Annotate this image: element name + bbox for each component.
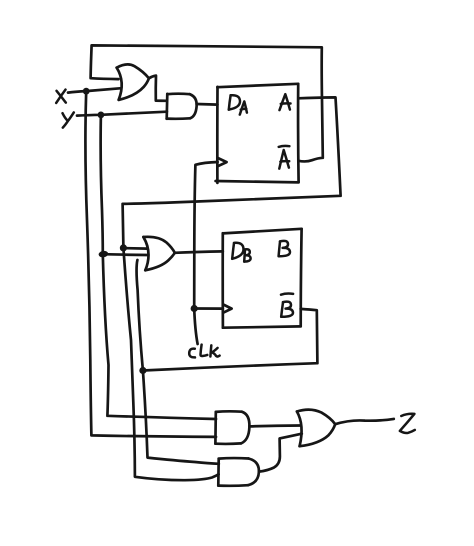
label A output — [280, 94, 291, 110]
wire A branch to OR G3 upper input — [123, 247, 147, 250]
clock wire to U1 and CLK vertical — [194, 162, 217, 344]
OR gate G3 — [143, 237, 174, 270]
wire Y branch to OR G3 lower input — [103, 253, 147, 257]
label Abar output — [279, 146, 290, 169]
label DB — [232, 243, 250, 262]
wire G1 output to AND G2 — [149, 76, 167, 101]
wire G3 output to DB input — [175, 251, 223, 252]
wire Y input — [77, 112, 167, 116]
flip-flop U1 box DA — [216, 84, 299, 183]
node A to OR G3 junction — [120, 244, 127, 251]
node Y junction — [98, 112, 105, 119]
label CLK — [189, 345, 219, 358]
node Y to OR G3 junction — [98, 250, 108, 258]
wire Abar feedback top loop — [91, 45, 323, 161]
OR gate G6 — [297, 410, 335, 447]
input X label — [56, 90, 66, 103]
node X junction — [83, 88, 90, 95]
U2 clock triangle — [223, 304, 232, 312]
OR gate G1 — [117, 64, 149, 99]
wire A vertical down to AND G5 upper input — [123, 248, 218, 480]
flip-flop U2 box DB — [223, 229, 302, 328]
wire X vertical down to AND G4 lower input — [85, 91, 216, 437]
node Bbar junction — [139, 367, 146, 374]
U1 clock triangle — [218, 158, 227, 166]
label Bbar output — [281, 294, 293, 317]
node CLK to U2 junction — [191, 305, 198, 312]
wire Y vertical down to AND G4 upper input — [101, 115, 216, 419]
AND gate G2 — [167, 94, 197, 119]
wire G5 output to OR G6 lower input — [259, 434, 302, 472]
label B output — [279, 241, 290, 256]
output Z label — [400, 414, 415, 433]
wire X input — [68, 88, 120, 92]
AND gate G5 — [218, 458, 259, 486]
wire G2 output to DA input — [197, 103, 218, 106]
wire G4 output to OR G6 upper input — [249, 424, 300, 428]
wire CLK branch to U2 clock — [194, 307, 223, 310]
label DA — [229, 95, 247, 114]
wire A output feedback to OR G3 — [123, 97, 341, 247]
wire Bbar output loop — [143, 309, 318, 371]
wire Z output — [335, 419, 394, 424]
input Y label — [63, 112, 74, 127]
AND gate G4 — [215, 411, 249, 444]
wire Bbar vertical to OR G3 and AND G5 lower input — [137, 260, 219, 464]
